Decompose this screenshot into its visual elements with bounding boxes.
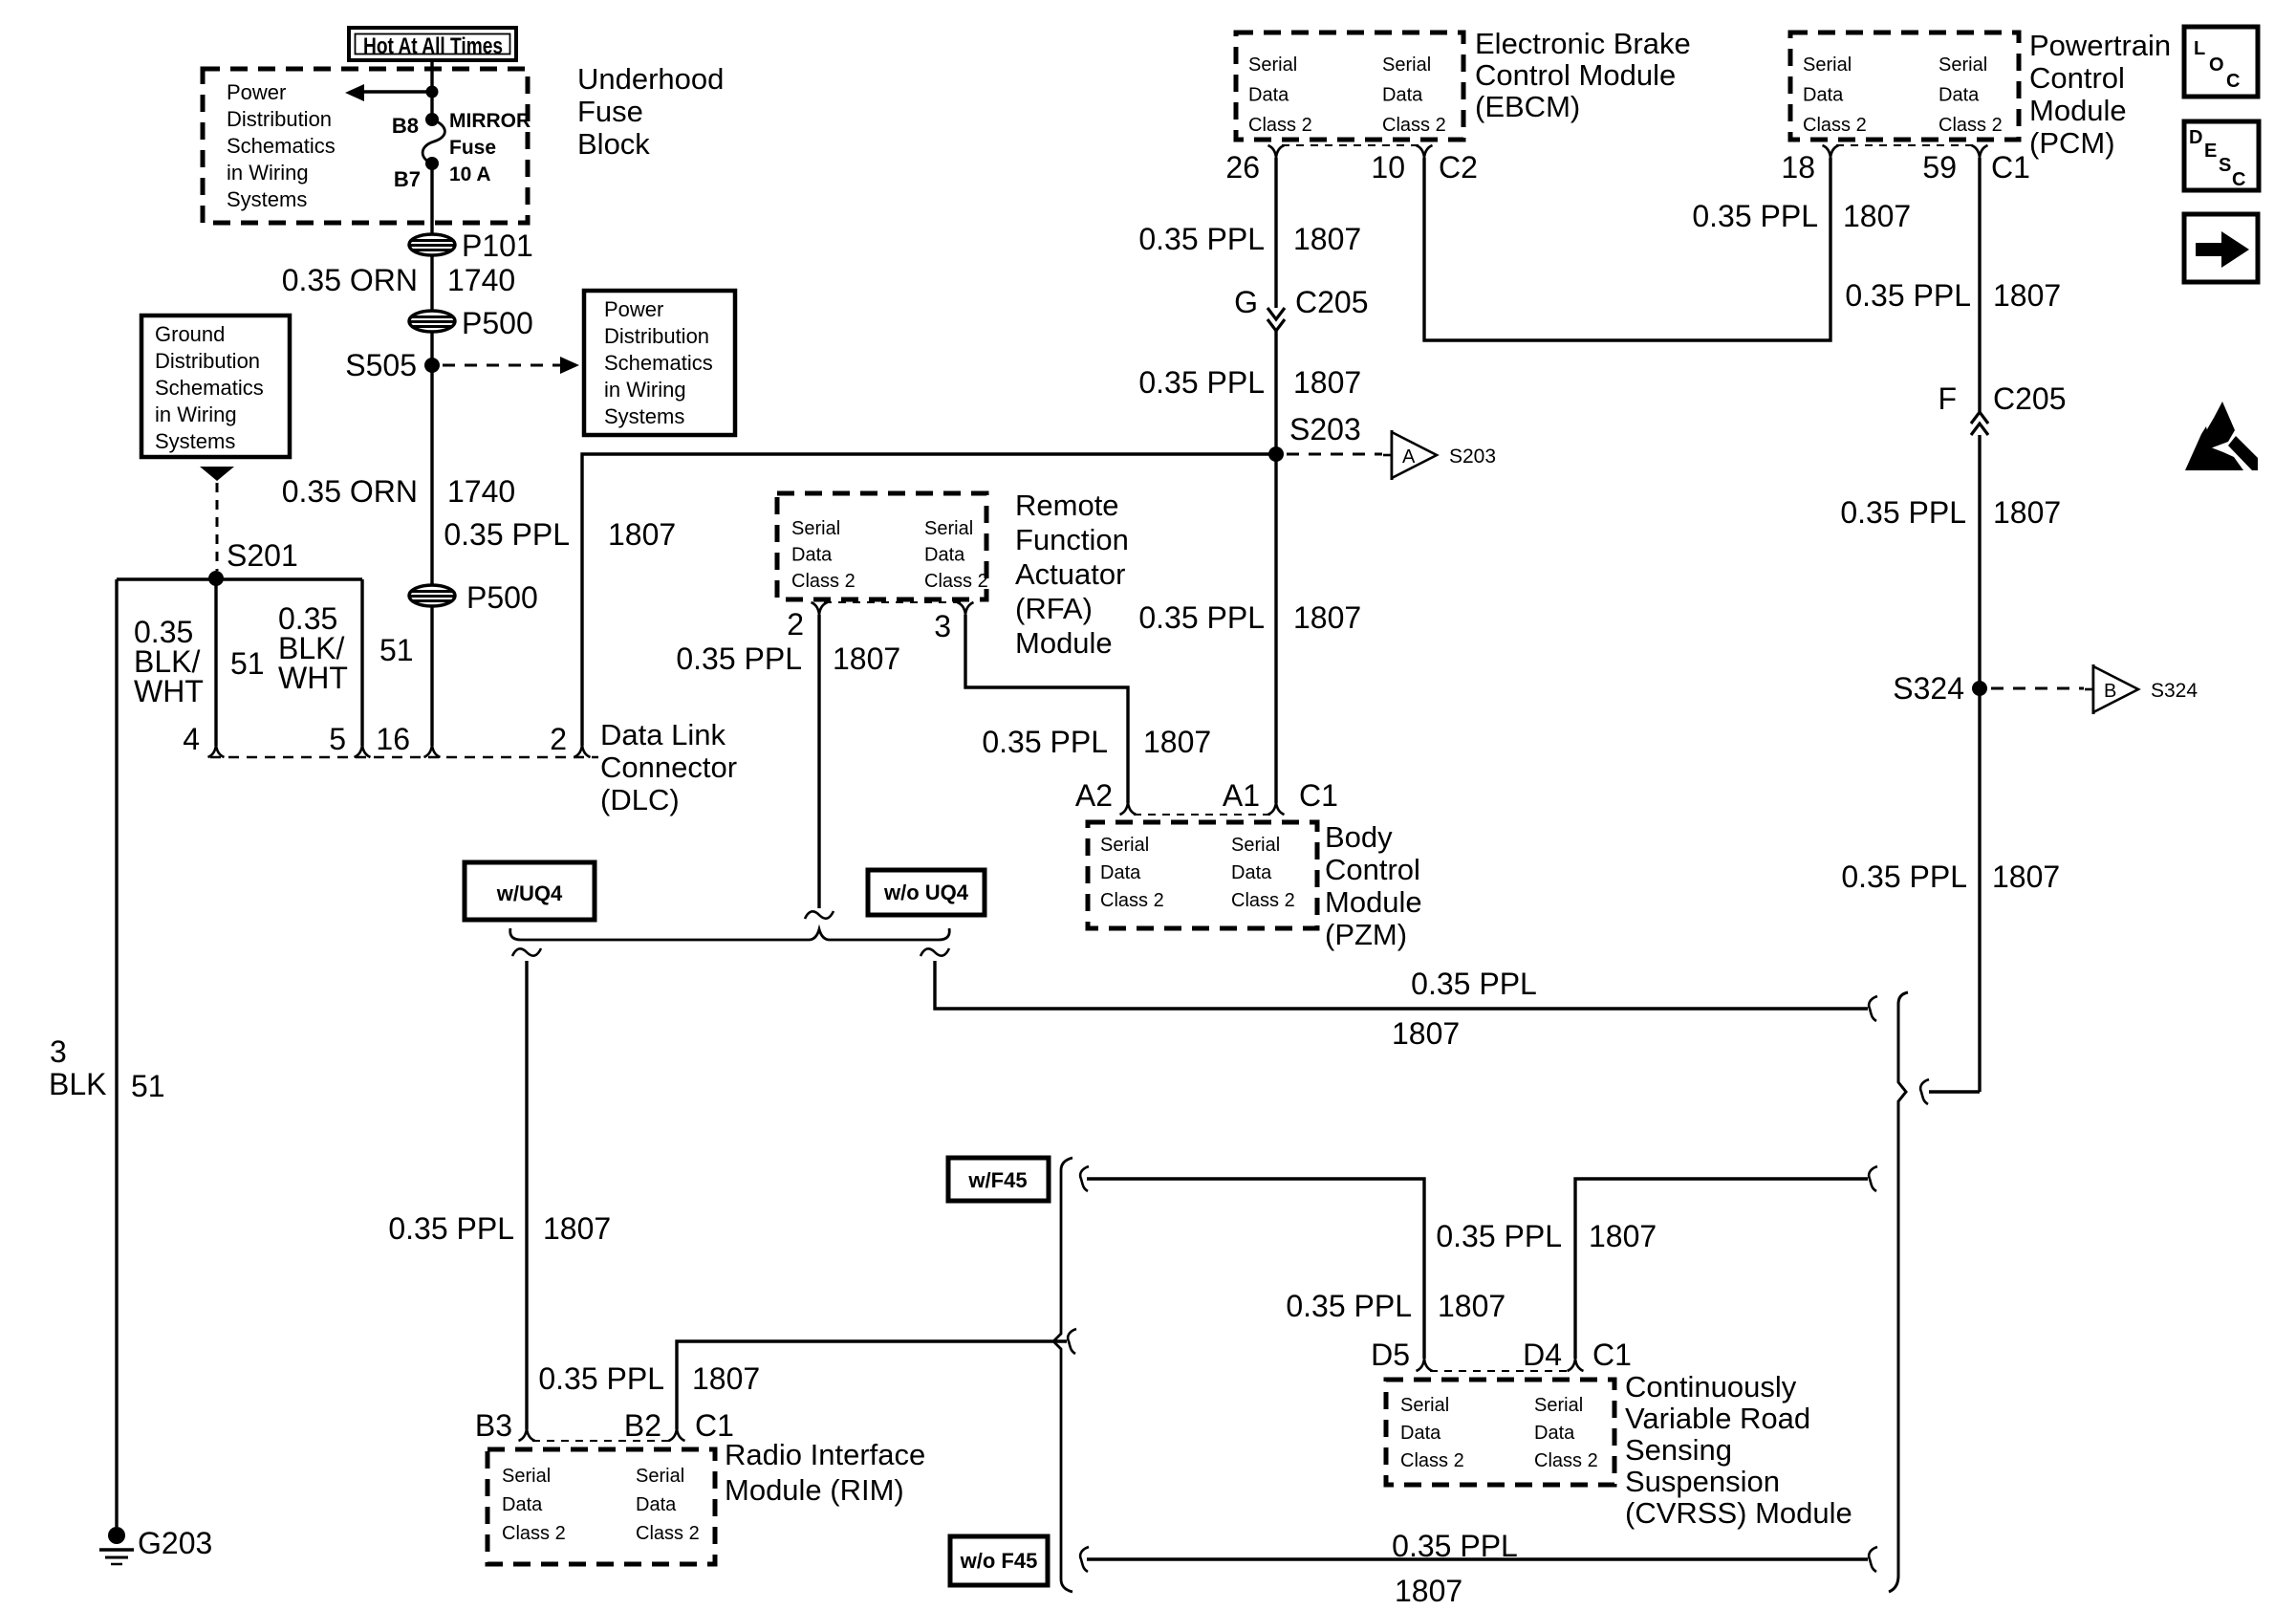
svg-text:B8: B8	[392, 114, 419, 138]
svg-text:S324: S324	[1893, 671, 1964, 706]
svg-text:Data: Data	[1100, 862, 1141, 883]
svg-text:Class 2: Class 2	[636, 1523, 700, 1544]
svg-text:Serial: Serial	[636, 1466, 684, 1487]
svg-text:Sensing: Sensing	[1625, 1433, 1732, 1467]
svg-text:C: C	[2232, 169, 2245, 190]
svg-text:A1: A1	[1223, 778, 1260, 813]
svg-text:Schematics: Schematics	[155, 376, 264, 400]
svg-text:0.35 PPL: 0.35 PPL	[1138, 222, 1265, 256]
svg-text:Serial: Serial	[924, 518, 973, 539]
svg-text:Class 2: Class 2	[1939, 115, 2003, 136]
svg-text:Underhood: Underhood	[577, 62, 724, 96]
svg-text:Serial: Serial	[1100, 835, 1149, 856]
svg-text:10: 10	[1371, 150, 1405, 185]
svg-text:Data: Data	[502, 1494, 543, 1515]
svg-text:B: B	[2104, 681, 2116, 702]
svg-text:Module: Module	[1325, 885, 1422, 919]
svg-text:Data: Data	[1939, 85, 1980, 106]
svg-text:Fuse: Fuse	[449, 137, 496, 159]
svg-text:Continuously: Continuously	[1625, 1370, 1797, 1403]
svg-text:Module (RIM): Module (RIM)	[725, 1473, 904, 1507]
svg-text:1807: 1807	[608, 517, 676, 552]
svg-text:Class 2: Class 2	[1382, 115, 1446, 136]
svg-text:1807: 1807	[1993, 278, 2061, 313]
svg-text:G: G	[1234, 285, 1258, 319]
svg-text:Systems: Systems	[604, 404, 684, 428]
svg-text:0.35 PPL: 0.35 PPL	[388, 1211, 514, 1246]
svg-text:D: D	[2189, 127, 2202, 148]
svg-text:2: 2	[787, 607, 804, 642]
svg-text:(EBCM): (EBCM)	[1475, 90, 1580, 123]
svg-text:Distribution: Distribution	[227, 107, 332, 131]
svg-text:1740: 1740	[447, 474, 515, 509]
svg-text:O: O	[2209, 54, 2224, 76]
svg-text:Control: Control	[1325, 853, 1420, 886]
svg-text:C205: C205	[1295, 285, 1369, 319]
svg-text:C205: C205	[1993, 381, 2067, 416]
svg-text:0.35 PPL: 0.35 PPL	[1845, 278, 1971, 313]
svg-text:E: E	[2204, 141, 2217, 162]
svg-text:0.35 PPL: 0.35 PPL	[982, 725, 1108, 759]
svg-text:w/F45: w/F45	[967, 1168, 1027, 1192]
svg-text:Data: Data	[1803, 85, 1844, 106]
svg-text:1807: 1807	[1438, 1289, 1505, 1323]
svg-text:10 A: 10 A	[449, 163, 491, 185]
svg-text:Power: Power	[604, 297, 663, 321]
svg-text:2: 2	[550, 722, 567, 756]
svg-text:Module: Module	[1015, 626, 1113, 660]
svg-text:(PZM): (PZM)	[1325, 918, 1407, 951]
svg-text:Class 2: Class 2	[1231, 890, 1295, 911]
svg-text:Data: Data	[791, 545, 833, 566]
svg-text:Data: Data	[924, 545, 965, 566]
svg-text:5: 5	[329, 722, 346, 756]
svg-text:Serial: Serial	[1939, 54, 1987, 76]
svg-text:Hot At All Times: Hot At All Times	[363, 33, 503, 59]
svg-text:WHT: WHT	[134, 674, 204, 708]
svg-text:D4: D4	[1523, 1338, 1562, 1372]
svg-text:in Wiring: in Wiring	[604, 378, 686, 402]
svg-text:Connector: Connector	[600, 751, 737, 784]
svg-text:3: 3	[50, 1034, 67, 1069]
svg-text:(PCM): (PCM)	[2029, 126, 2115, 160]
svg-text:A: A	[1402, 446, 1416, 468]
svg-text:1807: 1807	[692, 1361, 760, 1396]
svg-text:1807: 1807	[1589, 1219, 1657, 1253]
svg-text:Control Module: Control Module	[1475, 58, 1676, 92]
svg-text:1807: 1807	[1392, 1016, 1460, 1051]
svg-text:Schematics: Schematics	[227, 134, 336, 158]
svg-text:Variable Road: Variable Road	[1625, 1402, 1810, 1435]
svg-text:Data Link: Data Link	[600, 718, 726, 751]
svg-text:1807: 1807	[1143, 725, 1211, 759]
svg-text:Class 2: Class 2	[1100, 890, 1164, 911]
svg-text:1807: 1807	[1395, 1574, 1462, 1608]
svg-text:C1: C1	[1592, 1338, 1632, 1372]
svg-text:16: 16	[376, 722, 410, 756]
svg-text:Systems: Systems	[227, 187, 307, 211]
svg-text:Class 2: Class 2	[1400, 1450, 1464, 1471]
svg-text:Serial: Serial	[791, 518, 840, 539]
svg-text:C1: C1	[1299, 778, 1338, 813]
svg-text:1807: 1807	[1993, 495, 2061, 530]
svg-text:Powertrain: Powertrain	[2029, 29, 2171, 62]
svg-text:MIRROR: MIRROR	[449, 110, 531, 132]
svg-text:G203: G203	[138, 1526, 212, 1560]
svg-text:B2: B2	[624, 1408, 661, 1443]
svg-text:(CVRSS) Module: (CVRSS) Module	[1625, 1496, 1852, 1530]
svg-text:C: C	[2226, 71, 2240, 92]
svg-text:Systems: Systems	[155, 429, 235, 453]
svg-text:Module: Module	[2029, 94, 2127, 127]
svg-text:Class 2: Class 2	[791, 571, 856, 592]
svg-text:51: 51	[230, 646, 265, 681]
svg-text:0.35 PPL: 0.35 PPL	[1138, 365, 1265, 400]
svg-text:Power: Power	[227, 80, 286, 104]
svg-text:0.35 PPL: 0.35 PPL	[1841, 859, 1967, 894]
svg-text:Data: Data	[1382, 85, 1423, 106]
svg-text:C2: C2	[1439, 150, 1478, 185]
svg-text:1807: 1807	[1992, 859, 2060, 894]
svg-text:P101: P101	[462, 228, 533, 263]
svg-text:B3: B3	[475, 1408, 512, 1443]
svg-text:0.35 PPL: 0.35 PPL	[444, 517, 570, 552]
svg-text:1807: 1807	[1293, 365, 1361, 400]
svg-text:Schematics: Schematics	[604, 351, 713, 375]
svg-text:P500: P500	[466, 580, 538, 615]
svg-text:BLK: BLK	[49, 1067, 106, 1101]
svg-text:Body: Body	[1325, 820, 1393, 854]
svg-text:S201: S201	[227, 538, 298, 573]
svg-text:Suspension: Suspension	[1625, 1465, 1780, 1498]
svg-text:51: 51	[131, 1069, 165, 1103]
svg-text:(DLC): (DLC)	[600, 783, 680, 816]
svg-text:59: 59	[1922, 150, 1957, 185]
svg-text:0.35 ORN: 0.35 ORN	[282, 263, 418, 297]
svg-text:w/o F45: w/o F45	[960, 1549, 1038, 1573]
svg-text:Distribution: Distribution	[604, 324, 709, 348]
svg-text:0.35 PPL: 0.35 PPL	[538, 1361, 664, 1396]
svg-text:w/UQ4: w/UQ4	[496, 881, 563, 905]
svg-text:0.35 PPL: 0.35 PPL	[1286, 1289, 1412, 1323]
svg-text:Data: Data	[1231, 862, 1272, 883]
svg-text:S: S	[2219, 155, 2231, 176]
svg-text:Data: Data	[636, 1494, 677, 1515]
svg-text:Class 2: Class 2	[502, 1523, 566, 1544]
svg-text:S203: S203	[1449, 446, 1496, 468]
svg-text:Data: Data	[1534, 1423, 1575, 1444]
svg-text:Fuse: Fuse	[577, 95, 643, 128]
svg-text:Distribution: Distribution	[155, 349, 260, 373]
svg-text:Ground: Ground	[155, 322, 225, 346]
svg-text:in Wiring: in Wiring	[227, 161, 309, 185]
svg-text:0.35 PPL: 0.35 PPL	[1840, 495, 1966, 530]
svg-text:26: 26	[1225, 150, 1260, 185]
svg-text:Data: Data	[1400, 1423, 1441, 1444]
svg-text:P500: P500	[462, 306, 533, 340]
svg-text:0.35 PPL: 0.35 PPL	[1138, 600, 1265, 635]
svg-text:0.35 PPL: 0.35 PPL	[1411, 967, 1537, 1001]
svg-text:Control: Control	[2029, 61, 2125, 95]
svg-text:C1: C1	[1991, 150, 2030, 185]
svg-text:in Wiring: in Wiring	[155, 402, 237, 426]
svg-text:0.35 PPL: 0.35 PPL	[676, 642, 802, 676]
svg-text:Class 2: Class 2	[924, 571, 988, 592]
svg-text:(RFA): (RFA)	[1015, 592, 1093, 625]
svg-text:S505: S505	[345, 348, 417, 382]
svg-text:Serial: Serial	[1400, 1395, 1449, 1416]
svg-text:Serial: Serial	[1248, 54, 1297, 76]
svg-text:1807: 1807	[1293, 222, 1361, 256]
svg-text:18: 18	[1781, 150, 1815, 185]
svg-text:w/o UQ4: w/o UQ4	[883, 881, 969, 904]
svg-text:Class 2: Class 2	[1534, 1450, 1598, 1471]
svg-text:0.35 ORN: 0.35 ORN	[282, 474, 418, 509]
svg-text:B7: B7	[394, 167, 421, 191]
svg-text:Serial: Serial	[502, 1466, 551, 1487]
svg-text:Serial: Serial	[1803, 54, 1852, 76]
svg-text:Serial: Serial	[1382, 54, 1431, 76]
svg-text:Electronic Brake: Electronic Brake	[1475, 27, 1691, 60]
svg-text:0.35 PPL: 0.35 PPL	[1692, 199, 1818, 233]
svg-text:WHT: WHT	[278, 661, 348, 695]
svg-text:Serial: Serial	[1534, 1395, 1583, 1416]
svg-text:Data: Data	[1248, 85, 1289, 106]
svg-text:0.35 PPL: 0.35 PPL	[1392, 1529, 1518, 1563]
svg-text:Class 2: Class 2	[1803, 115, 1867, 136]
svg-text:51: 51	[379, 633, 414, 667]
svg-text:4: 4	[183, 722, 200, 756]
svg-text:Function: Function	[1015, 523, 1129, 556]
svg-text:Block: Block	[577, 127, 650, 161]
svg-text:D5: D5	[1371, 1338, 1410, 1372]
svg-text:L: L	[2194, 38, 2205, 59]
svg-text:0.35 PPL: 0.35 PPL	[1436, 1219, 1562, 1253]
svg-text:C1: C1	[695, 1408, 734, 1443]
svg-text:Class 2: Class 2	[1248, 115, 1312, 136]
svg-text:1807: 1807	[833, 642, 900, 676]
svg-text:A2: A2	[1075, 778, 1113, 813]
svg-text:Radio Interface: Radio Interface	[725, 1438, 925, 1471]
svg-text:1740: 1740	[447, 263, 515, 297]
svg-text:Remote: Remote	[1015, 489, 1119, 522]
svg-text:S324: S324	[2151, 680, 2198, 702]
svg-text:3: 3	[934, 609, 951, 643]
svg-text:1807: 1807	[543, 1211, 611, 1246]
svg-text:Actuator: Actuator	[1015, 557, 1125, 591]
svg-text:1807: 1807	[1843, 199, 1911, 233]
svg-text:1807: 1807	[1293, 600, 1361, 635]
svg-text:Serial: Serial	[1231, 835, 1280, 856]
svg-text:S203: S203	[1289, 412, 1361, 446]
svg-text:F: F	[1938, 381, 1957, 416]
